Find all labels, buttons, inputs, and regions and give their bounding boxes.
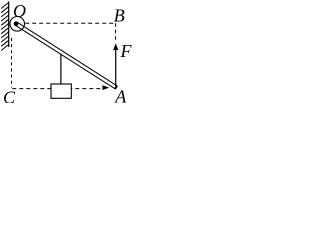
wall hatching [1, 3, 9, 51]
pivot circle [10, 17, 25, 32]
block [51, 84, 71, 98]
wall line [8, 2, 10, 48]
bottom dashed line C-A [12, 88, 101, 90]
beam end cap [115, 86, 117, 89]
svg-text:O: O [13, 1, 26, 21]
bottom arrowhead at A [102, 85, 109, 90]
svg-text:A: A [114, 86, 127, 103]
svg-text:F: F [120, 41, 133, 61]
pivot dot [14, 21, 19, 26]
svg-text:C: C [3, 87, 16, 103]
hanger line [60, 54, 62, 85]
background [0, 0, 133, 103]
left dashed line O-C [11, 38, 13, 88]
right dashed line B-F [115, 23, 117, 42]
beam OA [15, 22, 117, 89]
svg-text:B: B [114, 6, 125, 26]
force arrow F head [113, 43, 118, 50]
top dashed line O-B [25, 22, 115, 24]
force arrow F shaft [115, 50, 117, 87]
